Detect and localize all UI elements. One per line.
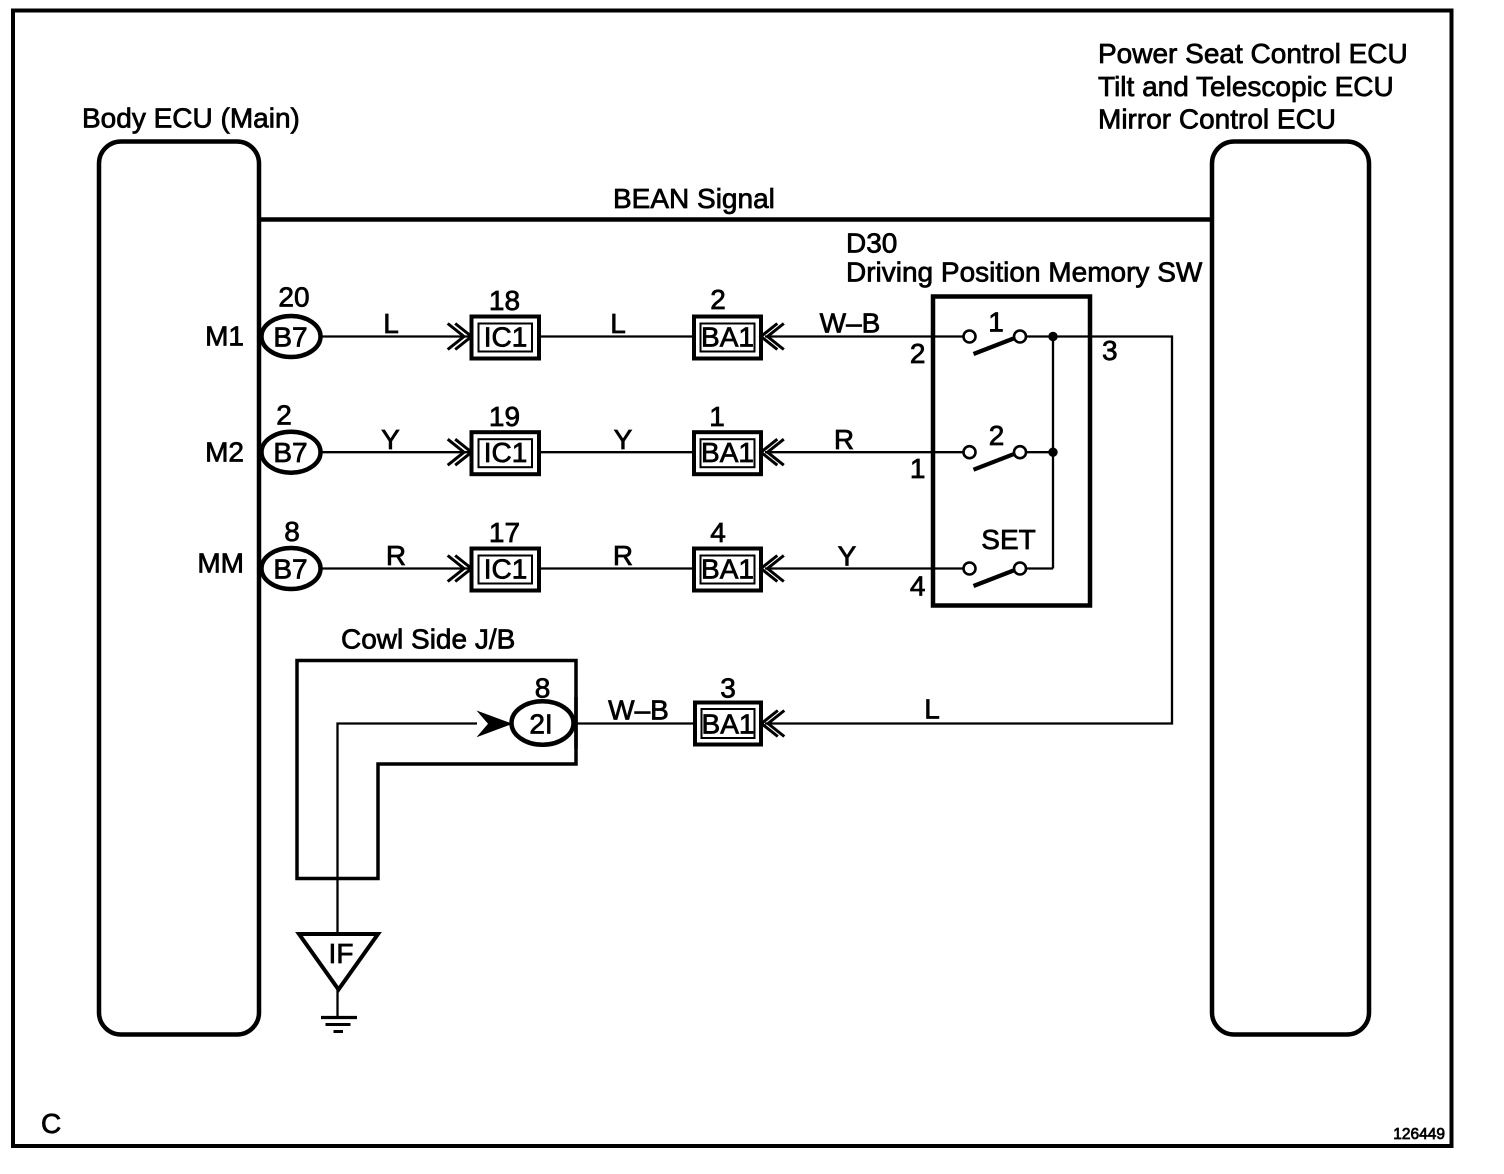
- wire BEAN Signal bus: [259, 217, 1212, 222]
- svg-text:Body ECU (Main): Body ECU (Main): [82, 103, 300, 134]
- junction IC1 row M2 pin 19: [448, 401, 539, 474]
- wire triangle to ground: [336, 987, 338, 1016]
- svg-text:2I: 2I: [529, 709, 552, 740]
- switch contact row 2 (memory 2): [964, 420, 1027, 470]
- wire row M1 left: B7 to IC1, label L: [323, 335, 472, 337]
- switch D30 Driving Position Memory SW: [846, 228, 1203, 606]
- junction block Cowl Side J/B: [297, 624, 576, 879]
- wire row M2 left: B7 to IC1, label Y: [323, 451, 472, 453]
- junction BA1 bottom pin 3: [695, 673, 784, 745]
- connector B7 pin 2 (row M2): [262, 399, 321, 472]
- svg-text:Power Seat Control ECU: Power Seat Control ECU: [1098, 38, 1408, 69]
- svg-text:W–B: W–B: [820, 307, 881, 338]
- junction dot row 2: [1048, 448, 1057, 457]
- junction BA1 row MM pin 4: [694, 517, 784, 591]
- svg-text:4: 4: [710, 517, 726, 548]
- wire row M2 mid: IC1 to BA1, label Y: [539, 451, 694, 453]
- svg-text:126449: 126449: [1393, 1126, 1445, 1143]
- junction dot row 1: [1048, 332, 1057, 341]
- svg-text:8: 8: [535, 673, 551, 704]
- svg-text:IC1: IC1: [484, 437, 528, 468]
- junction IC1 row M1 pin 18: [448, 285, 539, 359]
- svg-text:B7: B7: [273, 322, 307, 353]
- ECU block U2: Power Seat / Tilt-Telescopic / Mirror Control ECU: [1212, 142, 1369, 1035]
- svg-text:IF: IF: [329, 938, 354, 969]
- svg-text:3: 3: [720, 673, 736, 704]
- svg-text:R: R: [386, 540, 406, 571]
- svg-text:1: 1: [709, 401, 725, 432]
- svg-text:C: C: [41, 1108, 61, 1139]
- svg-text:MM: MM: [197, 548, 244, 579]
- svg-text:B7: B7: [273, 554, 307, 585]
- wire row MM left: B7 to IC1, label R: [323, 567, 472, 569]
- svg-text:BA1: BA1: [701, 554, 754, 585]
- svg-text:L: L: [924, 694, 940, 725]
- svg-text:BA1: BA1: [701, 437, 754, 468]
- svg-text:BEAN Signal: BEAN Signal: [613, 183, 775, 214]
- svg-text:18: 18: [489, 285, 520, 316]
- arrow into connector 2I: [477, 711, 513, 738]
- wire from switch 1 to right, down to bottom row: [765, 337, 1172, 724]
- wire row M2 right: BA1 to D30, label R: [765, 451, 964, 453]
- svg-text:M1: M1: [205, 321, 244, 352]
- svg-text:Driving Position Memory SW: Driving Position Memory SW: [846, 257, 1203, 288]
- svg-text:2: 2: [989, 420, 1005, 451]
- svg-text:D30: D30: [846, 228, 897, 259]
- switch contact row 3 (SET): [964, 524, 1036, 586]
- ground triangle IF: [299, 934, 378, 990]
- wire common bus inside D30: [1052, 337, 1054, 569]
- junction IC1 row MM pin 17: [448, 517, 539, 591]
- svg-text:IC1: IC1: [484, 322, 528, 353]
- wire row M1 right: BA1 to D30, label W-B: [765, 335, 964, 337]
- ground symbol: [321, 1018, 357, 1032]
- svg-text:BA1: BA1: [701, 322, 754, 353]
- svg-text:IC1: IC1: [484, 554, 528, 585]
- connector B7 pin 20 (row M1): [262, 282, 321, 358]
- svg-text:Mirror Control ECU: Mirror Control ECU: [1098, 103, 1336, 134]
- svg-text:17: 17: [489, 517, 520, 548]
- svg-text:3: 3: [1102, 335, 1118, 366]
- svg-text:2: 2: [710, 284, 726, 315]
- svg-text:19: 19: [489, 401, 520, 432]
- connector 2I pin 8: [512, 673, 577, 750]
- svg-text:1: 1: [988, 307, 1004, 338]
- svg-text:2: 2: [910, 338, 926, 369]
- svg-text:Y: Y: [838, 541, 857, 572]
- svg-text:BA1: BA1: [702, 709, 755, 740]
- wire 2I to BA1 bottom, label W-B: [575, 722, 695, 724]
- svg-text:1: 1: [910, 453, 926, 484]
- svg-text:L: L: [610, 308, 626, 339]
- svg-text:M2: M2: [205, 436, 244, 467]
- svg-text:R: R: [834, 424, 854, 455]
- svg-text:20: 20: [278, 282, 309, 313]
- svg-text:R: R: [613, 540, 633, 571]
- junction BA1 row M1 pin 2: [694, 284, 784, 359]
- svg-text:W–B: W–B: [608, 695, 669, 726]
- junction BA1 row M2 pin 1: [694, 401, 784, 474]
- connector B7 pin 8 (row MM): [262, 516, 321, 589]
- ECU block U1: Body ECU (Main): [99, 142, 259, 1035]
- wire SET output: [1027, 567, 1054, 569]
- svg-text:4: 4: [910, 571, 926, 602]
- svg-text:B7: B7: [273, 437, 307, 468]
- wire row MM mid: IC1 to BA1, label R: [539, 567, 694, 569]
- wire inside Cowl Side J/B: [338, 724, 478, 935]
- svg-text:Tilt and Telescopic ECU: Tilt and Telescopic ECU: [1098, 71, 1394, 102]
- svg-text:Cowl Side J/B: Cowl Side J/B: [341, 624, 515, 655]
- svg-text:L: L: [383, 308, 399, 339]
- wire row MM right: BA1 to D30, label Y: [765, 567, 964, 569]
- svg-text:Y: Y: [381, 424, 400, 455]
- svg-text:2: 2: [276, 399, 292, 430]
- switch contact row 1 (memory 1): [964, 307, 1027, 355]
- svg-text:Y: Y: [614, 424, 633, 455]
- svg-text:SET: SET: [981, 524, 1035, 555]
- wire switch 2 output: [1027, 451, 1054, 453]
- wire row M1 mid: IC1 to BA1, label L: [539, 335, 694, 337]
- svg-text:8: 8: [284, 516, 300, 547]
